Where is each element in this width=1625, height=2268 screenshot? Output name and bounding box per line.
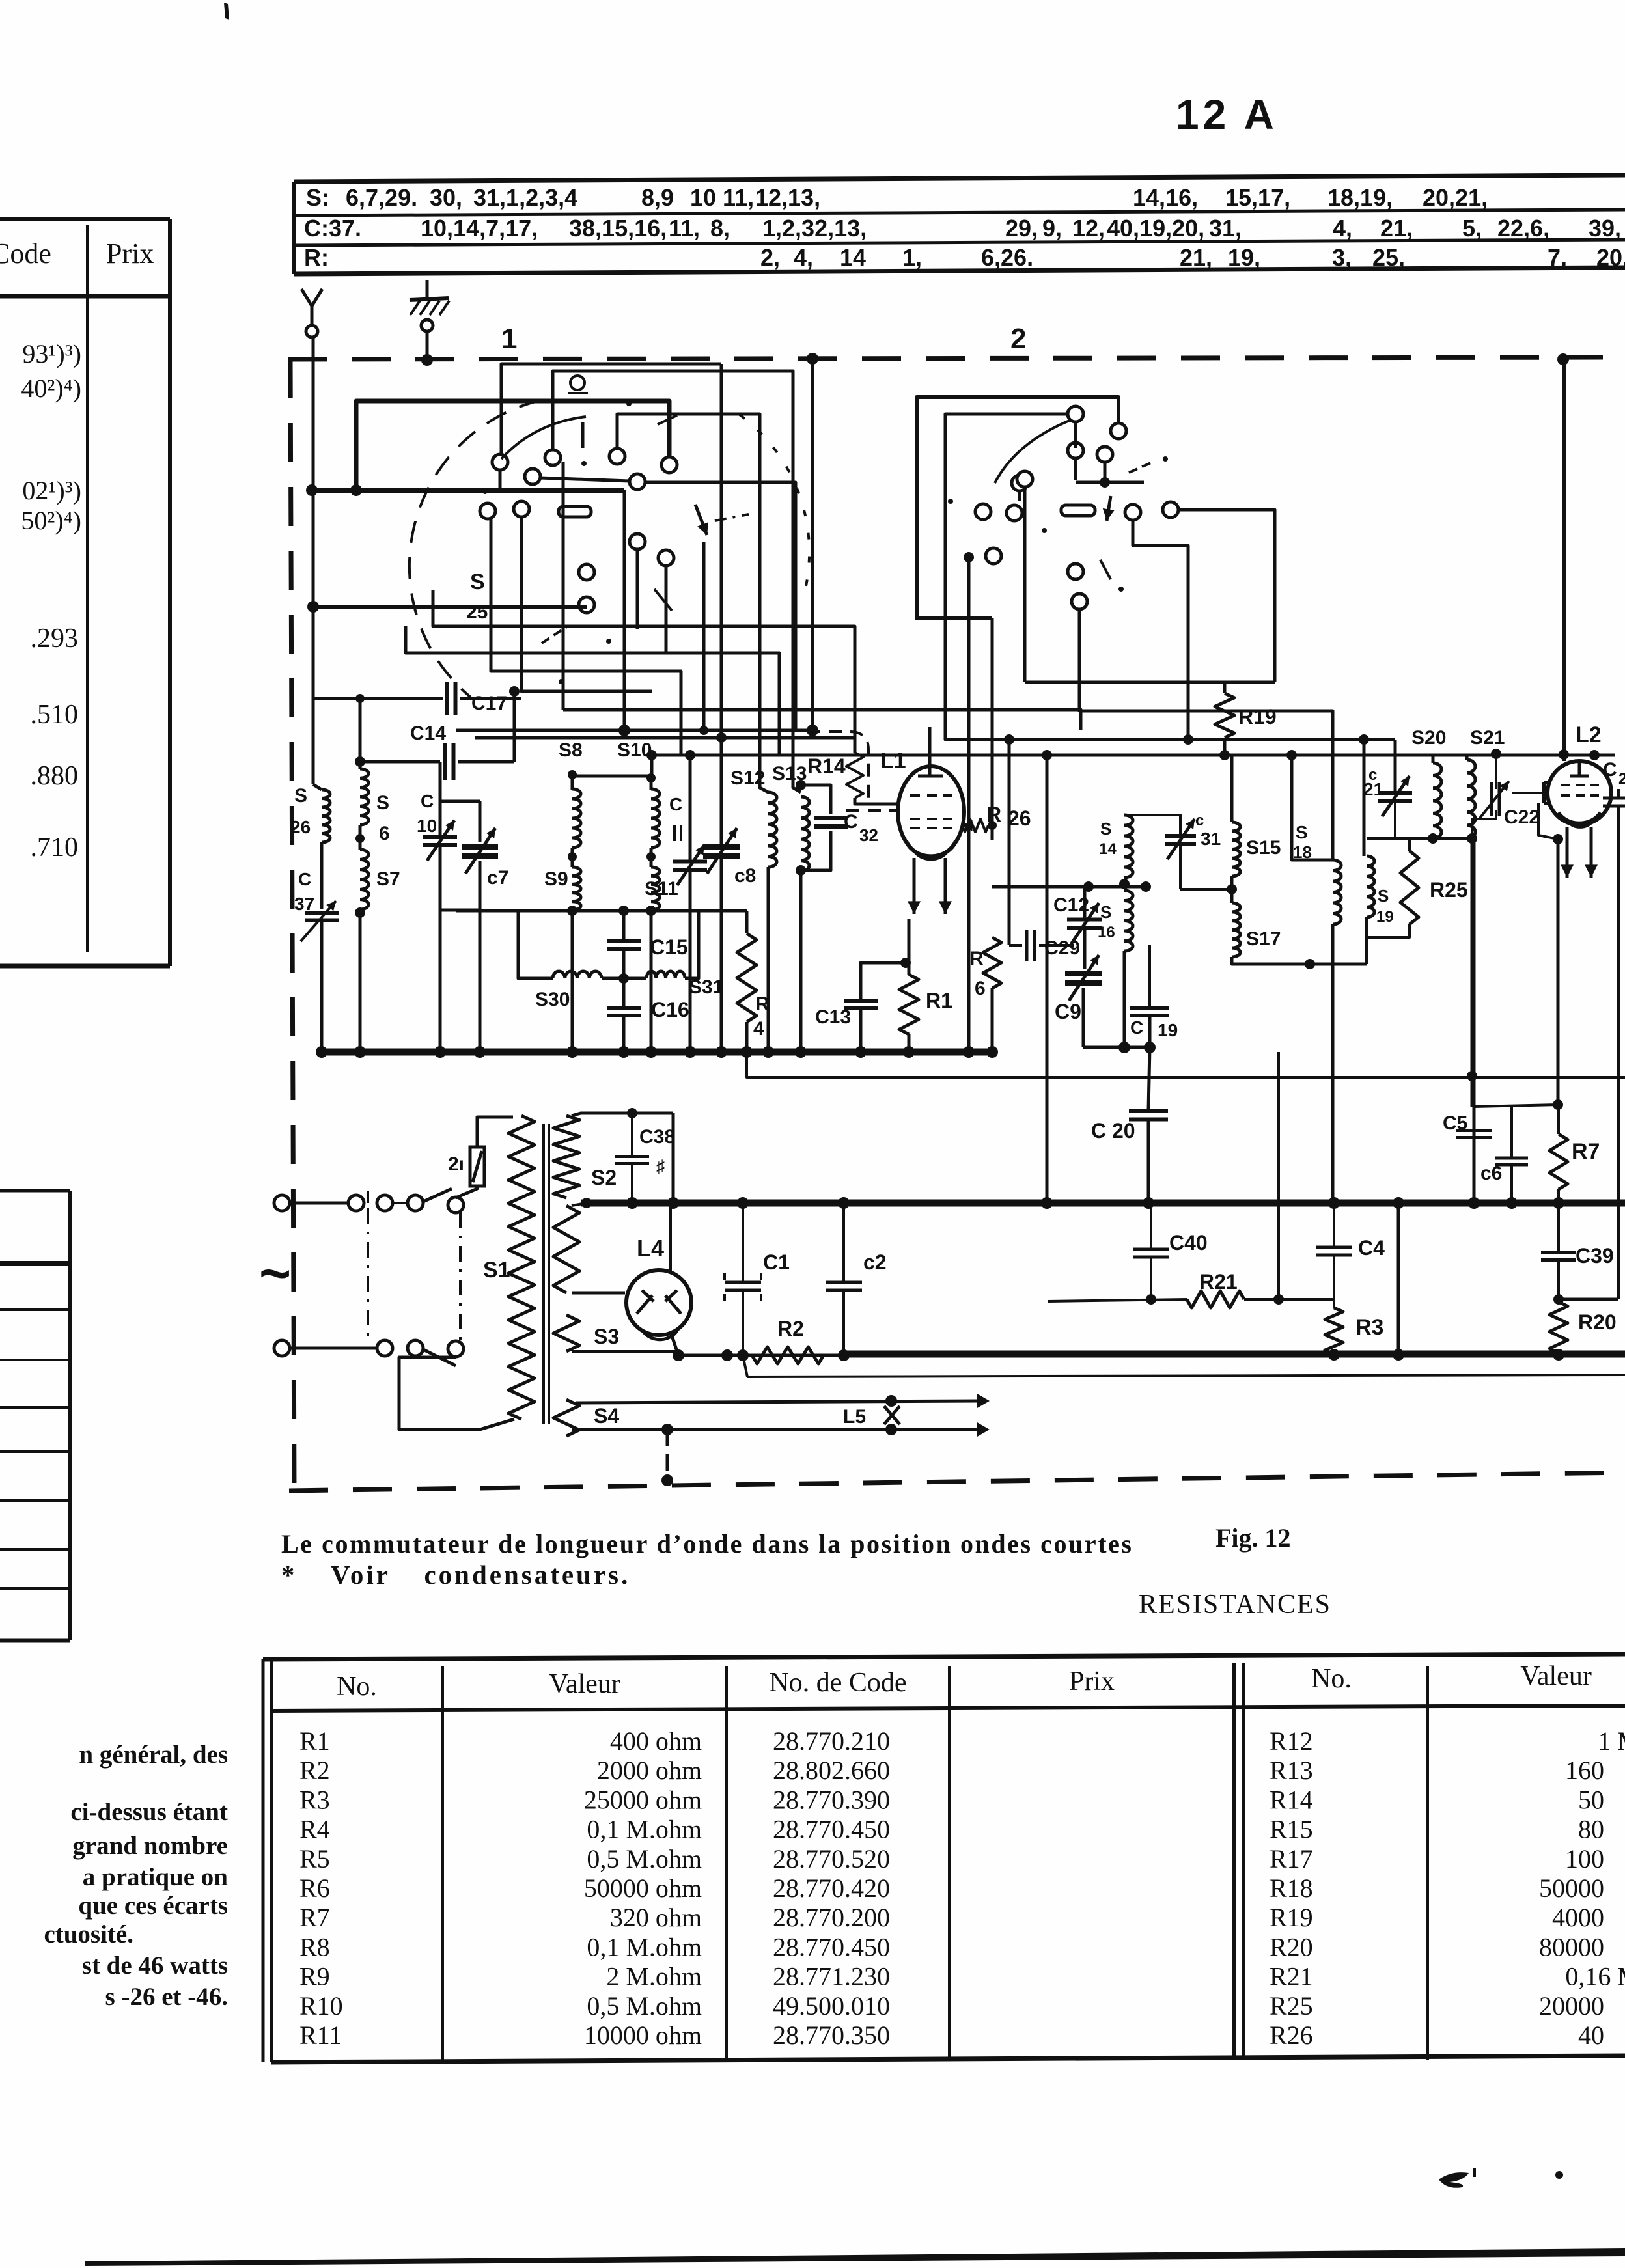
svg-text:C 20: C 20 [1091,1119,1135,1142]
cap C37 [305,911,339,915]
svg-text:Valeur: Valeur [1520,1661,1592,1691]
svg-text:n général, des: n général, des [79,1741,228,1769]
primary bottom lead [399,1357,514,1430]
S4 drop to border [666,1430,669,1478]
cap C14 [443,743,447,780]
coil S20 [1433,763,1441,838]
supply bus y2084 thin part [678,1354,846,1357]
switch 2 outline a [917,397,1118,618]
svg-text:26: 26 [1008,807,1031,830]
vert x2264 [1473,838,1476,1203]
svg-text:R3: R3 [299,1785,330,1814]
left lower table frame [68,1191,72,1640]
resistor R6 [983,937,1001,988]
svg-text:R21: R21 [1199,1270,1238,1293]
svg-text:C: C [298,869,311,889]
wire riser P4 [617,414,768,792]
coil S11 [651,867,660,910]
svg-text:15,17,: 15,17, [1225,184,1290,211]
svg-text:22,6,: 22,6, [1497,215,1549,242]
svg-text:9,: 9, [1042,215,1062,242]
coil S12 [768,792,777,867]
L4 bottom lead [671,1332,678,1355]
svg-text:No. de Code: No. de Code [769,1668,906,1698]
svg-text:C: C [421,791,434,811]
svg-text:Code: Code [0,238,51,270]
svg-text:No.: No. [1311,1664,1352,1694]
svg-text:4: 4 [753,1018,764,1040]
coil S26 [322,790,330,842]
svg-text:31: 31 [1201,829,1221,849]
svg-text:02¹)³): 02¹)³) [22,476,81,505]
svg-text:28.770.520: 28.770.520 [773,1844,890,1874]
svg-text:S4: S4 [594,1404,619,1428]
switch 2 marks [1129,462,1152,473]
mains terminals bottom [274,1340,290,1356]
svg-text:S10: S10 [617,740,652,761]
svg-text:2ı: 2ı [448,1154,464,1175]
svg-text:4,: 4, [794,244,813,271]
svg-text:S: S [1100,902,1111,922]
svg-text:C22: C22 [1504,807,1540,828]
svg-text:C: C [1603,759,1617,781]
svg-text:S: S [294,785,307,807]
svg-text:S11: S11 [645,878,678,900]
svg-text:400 ohm: 400 ohm [610,1726,702,1756]
scan edge bottom [85,2248,1625,2266]
svg-text:.510: .510 [31,700,79,730]
svg-text:28.802.660: 28.802.660 [773,1756,890,1785]
filter coil S30 [553,971,602,978]
svg-text:R: R [755,993,770,1015]
svg-text:R25: R25 [1270,1991,1313,2021]
svg-text:19,: 19, [1228,244,1260,271]
junction dot on border right [1557,353,1569,365]
svg-text:28.770.210: 28.770.210 [773,1726,890,1756]
wire drop c11 [636,549,639,629]
coil S8 [572,789,581,848]
cap C29 [1025,930,1029,961]
filter wiring [622,911,626,941]
ground symbol [426,280,429,300]
antenna bus [312,488,624,493]
svg-text:L5: L5 [843,1406,866,1428]
svg-text:C:37.: C:37. [304,215,361,242]
svg-text:S20: S20 [1411,727,1446,749]
svg-text:S30: S30 [535,989,570,1010]
svg-text:7,: 7, [1548,244,1567,271]
switch 2 wire to x1825 [1133,520,1188,740]
mains link dash [367,1208,369,1342]
coil S13 [801,797,809,871]
dashed chassis border left [290,359,294,1491]
svg-text:2 M.ohm: 2 M.ohm [606,1962,702,1991]
vert to C20 [1148,1047,1150,1111]
ink speck top [224,3,229,20]
secondary S2 [553,1116,579,1198]
svg-text:20000: 20000 [1539,1991,1604,2021]
svg-text:C: C [1130,1017,1143,1038]
svg-text:C4: C4 [1358,1236,1385,1260]
cap C5 [1456,1129,1492,1132]
svg-text:que ces écarts: que ces écarts [78,1892,228,1920]
svg-text:C16: C16 [651,998,689,1021]
wire S8-S10 top [575,775,652,778]
ohm mark [570,376,585,390]
svg-text:R3: R3 [1355,1315,1383,1340]
wire riser P2 [553,371,801,792]
svg-text:50²)⁴): 50²)⁴) [21,506,81,535]
resistor R26 [962,819,988,832]
resistor R3 [1325,1308,1343,1354]
cap C32 loop [801,785,831,814]
vert C38 right [672,1113,675,1203]
coil S7 [360,850,368,909]
svg-text:* Voir condensateurs.: * Voir condensateurs. [281,1560,630,1590]
svg-text:31,1,2,3,4: 31,1,2,3,4 [473,184,577,211]
svg-text:28.770.450: 28.770.450 [773,1932,890,1961]
thin line right [747,1052,1625,1077]
svg-text:R2: R2 [299,1756,330,1785]
svg-text:2: 2 [1618,770,1625,788]
svg-text:R20: R20 [1578,1310,1617,1334]
svg-text:L2: L2 [1576,723,1602,747]
svg-text:R6: R6 [299,1874,330,1903]
vert x1964 [1277,1052,1280,1299]
svg-text:28.771.230: 28.771.230 [773,1962,890,1991]
vert S21 col [1471,838,1474,1107]
wire h1609 [1083,1046,1150,1049]
svg-text:R19: R19 [1238,705,1277,728]
cap C4 [1316,1246,1352,1249]
cap C40 [1133,1248,1169,1251]
S4 lead [572,1428,891,1431]
switch 1 blade arc [501,417,586,459]
svg-text:R12: R12 [1270,1726,1313,1756]
switch 1 arrow [695,505,707,535]
cap C20 [1129,1109,1168,1113]
svg-text:R26: R26 [1270,2021,1313,2050]
coil S21 [1467,760,1475,838]
svg-text:4000: 4000 [1552,1903,1604,1932]
wire stair 8 [562,462,565,710]
svg-text:6,26.: 6,26. [981,244,1033,271]
svg-text:S: S [470,570,485,594]
svg-text:R14: R14 [1270,1785,1313,1814]
coil S18 [1333,860,1341,924]
svg-text:R19: R19 [1270,1903,1313,1932]
svg-text:S21: S21 [1470,727,1505,749]
secondary middle [553,1206,579,1293]
cap C7 dark [462,844,498,850]
svg-text:0,1 M.ohm: 0,1 M.ohm [587,1815,702,1844]
cap C22 variable [1490,782,1493,816]
svg-text:S9: S9 [544,868,568,890]
svg-text:C15: C15 [650,935,688,959]
svg-text:14: 14 [1099,840,1117,858]
svg-text:11,: 11, [669,215,700,242]
svg-text:49.500.010: 49.500.010 [773,1991,890,2021]
resistor R2 [752,1347,824,1364]
svg-text:2000 ohm: 2000 ohm [597,1756,702,1785]
coil S14 [1124,815,1133,878]
svg-text:12,13,: 12,13, [755,184,820,211]
svg-text:6,7,29.: 6,7,29. [346,184,417,211]
svg-text:R1: R1 [926,989,952,1012]
filter cap C16 [607,1006,641,1010]
wire S6 top [359,760,362,769]
svg-text:8,9: 8,9 [641,184,674,211]
svg-text:50000 ohm: 50000 ohm [584,1874,702,1903]
svg-text:21: 21 [1363,779,1383,799]
resistor R25 [1400,851,1419,924]
svg-text:R1: R1 [299,1726,330,1756]
resistor R21 [1187,1291,1244,1308]
switch 2 y741 wire [1074,458,1077,480]
svg-text:160: 160 [1565,1756,1604,1785]
svg-text:29,: 29, [1005,215,1038,242]
svg-text:1 M.: 1 M. [1598,1726,1625,1756]
svg-text:4,: 4, [1333,215,1352,242]
cap C39 [1541,1251,1576,1254]
svg-text:12 A: 12 A [1176,91,1278,138]
svg-text:.293: .293 [31,624,79,654]
coil S19 [1367,856,1374,917]
C10-C7 link [440,800,480,803]
switch 2 stair to S18 [1079,609,1333,860]
long pair wire 2 [475,736,855,740]
svg-text:26: 26 [290,817,311,837]
svg-text:R4: R4 [299,1815,330,1844]
svg-text:R: R [969,948,984,969]
ink blob bottom right [1439,2172,1469,2188]
svg-text:80000: 80000 [1539,1932,1604,1961]
svg-text:R20: R20 [1270,1932,1313,1961]
svg-text:.880: .880 [31,761,79,791]
supply bus y1848 [581,1200,1625,1207]
svg-text:c: c [1195,812,1204,829]
L4 top lead [669,1203,672,1273]
rectifier winding lead [572,1292,625,1295]
wire right edge [1558,1298,1618,1301]
svg-text:40: 40 [1578,2021,1604,2050]
wire drop d [665,566,668,652]
wire y1697 [1474,1105,1558,1107]
svg-text:20,: 20, [1596,244,1625,271]
svg-text:5,: 5, [1462,215,1482,242]
svg-text:14: 14 [840,244,866,271]
svg-text:c7: c7 [487,867,508,889]
svg-text:28.770.420: 28.770.420 [773,1874,890,1903]
svg-text:10 11,: 10 11, [690,184,754,211]
svg-text:10: 10 [417,816,437,836]
wire bus A [356,401,669,490]
cap C10 variable [423,835,457,839]
coil S10 [651,789,660,848]
cap C1 [725,1281,761,1284]
svg-text:R9: R9 [299,1962,330,1991]
secondary S3 [553,1315,579,1351]
resistor R7 [1549,1134,1568,1189]
svg-text:0,5 M.ohm: 0,5 M.ohm [587,1844,702,1874]
switch 2 wire to R19 [1178,510,1275,682]
svg-text:10,14,7,17,: 10,14,7,17, [421,215,538,242]
filter cap C15 [607,939,641,943]
svg-text:8,: 8, [710,215,730,242]
svg-text:R17: R17 [1270,1844,1313,1874]
svg-text:R10: R10 [299,1991,343,2021]
svg-text:R21: R21 [1270,1962,1313,1991]
switch 2 outline b [945,414,1395,740]
cap C9 dark [1065,971,1102,976]
dashed chassis border top [288,357,1625,359]
svg-text:40,19,20,: 40,19,20, [1107,215,1204,242]
svg-text:10000 ohm: 10000 ohm [584,2021,702,2050]
svg-text:93¹)³): 93¹)³) [22,339,81,368]
mains terminals top [274,1195,290,1211]
svg-text:R11: R11 [299,2021,342,2050]
svg-text:.710: .710 [31,833,79,863]
svg-text:st de 46 watts: st de 46 watts [82,1952,228,1980]
switch 1 pad [559,506,591,517]
svg-text:31,: 31, [1209,215,1242,242]
svg-text:R13: R13 [1270,1756,1313,1785]
long pair wire 1 [456,729,812,732]
svg-text:L4: L4 [637,1235,664,1262]
switch 2 contacts [1068,443,1083,458]
vert x1608 [1046,755,1049,1203]
svg-text:80: 80 [1578,1815,1604,1844]
svg-text:ci-dessus étant: ci-dessus étant [70,1798,228,1826]
wire stair 6 [491,519,681,755]
svg-text:R2: R2 [777,1317,804,1340]
antenna symbol [311,306,314,325]
coil S15 [1232,822,1240,876]
svg-text:21,: 21, [1180,244,1212,271]
tube L4 [626,1270,691,1335]
wire y1288 [1367,837,1472,840]
svg-text:20,21,: 20,21, [1423,184,1488,211]
cap C12 variable [1067,918,1102,922]
svg-text:C17: C17 [471,693,507,714]
svg-text:a pratique on: a pratique on [83,1863,229,1891]
cap C38 [615,1155,649,1158]
svg-text:S: S [376,792,389,814]
svg-text:25: 25 [466,602,488,623]
wire contact link [540,478,630,481]
resistor R20 [1549,1302,1568,1353]
wire stair 7 [521,517,652,691]
switch 2 blade arc [995,420,1071,483]
tube L2 arrows [1566,827,1569,878]
svg-text:28.770.450: 28.770.450 [773,1815,890,1844]
svg-text:40²)⁴): 40²)⁴) [21,374,81,403]
svg-text:30,: 30, [430,184,462,211]
cap C6 [1495,1157,1528,1160]
svg-text:S:: S: [306,184,329,211]
svg-text:ctuosité.: ctuosité. [44,1920,133,1948]
svg-text:C39: C39 [1576,1244,1614,1267]
cap C23 [1603,797,1625,800]
svg-text:0,16 M.: 0,16 M. [1565,1962,1625,1991]
svg-text:grand nombre: grand nombre [72,1832,228,1860]
resistor table frame [263,1654,1625,1659]
top table frame [294,175,1625,182]
svg-text:16: 16 [1098,924,1115,941]
svg-text:S2: S2 [591,1166,617,1189]
coil S16 [1124,891,1133,951]
svg-text:25000 ohm: 25000 ohm [584,1785,702,1814]
svg-text:S15: S15 [1246,837,1281,859]
svg-text:S: S [1296,822,1308,842]
filter coil S31 [646,971,685,978]
svg-text:12,: 12, [1072,215,1105,242]
svg-text:L1: L1 [880,749,906,773]
svg-text:19: 19 [1158,1020,1178,1040]
cap C21 variable [1378,791,1412,795]
switch 1 small marks [658,415,677,424]
tube L1 arrows [913,858,916,914]
svg-text:C40: C40 [1169,1231,1208,1254]
wire S17 bottom [1232,957,1367,964]
svg-text:R5: R5 [299,1844,330,1874]
tube L2 grid bracket [1542,782,1546,803]
svg-text:6: 6 [379,823,390,844]
svg-text:R18: R18 [1270,1874,1313,1903]
svg-text:2: 2 [1010,323,1026,355]
resistor R19 [1215,693,1234,738]
resistor R4 [737,933,757,1022]
secondary S4 [553,1400,579,1436]
svg-text:C29: C29 [1044,937,1080,959]
wire L2 cathode [1538,803,1558,839]
switch 2 arrow [1107,496,1111,521]
switch 2 drop to C29 [1008,740,1011,945]
svg-text:28.770.390: 28.770.390 [773,1785,890,1814]
coil S6 [360,769,368,825]
svg-text:s -26 et -46.: s -26 et -46. [105,1983,228,2011]
svg-text:C: C [669,794,682,814]
main h wire [652,754,1615,757]
svg-text:Prix: Prix [1069,1666,1115,1696]
wire R14 to L1 grid [855,798,900,804]
vert x2148 [1397,1203,1400,1354]
vert from border to L2 [1562,359,1566,761]
cap C2 [826,1281,862,1284]
wire riser P1 [501,364,721,455]
svg-text:No.: No. [337,1672,377,1702]
svg-text:c2: c2 [863,1251,887,1274]
svg-text:R8: R8 [299,1932,330,1961]
svg-text:28.770.200: 28.770.200 [773,1903,890,1932]
svg-text:0,5 M.ohm: 0,5 M.ohm [587,1991,702,2021]
svg-text:320 ohm: 320 ohm [610,1903,702,1932]
svg-text:1: 1 [501,323,517,355]
rotary switch S5 dashed outline [410,400,540,697]
dashed chassis border bottom [289,1473,1625,1491]
cap C8 dark [703,844,740,850]
switch 1 contacts [492,454,508,470]
svg-text:R:: R: [304,244,329,271]
coil S17 [1232,903,1240,957]
wire stair 2 [644,482,796,730]
wire border drop [811,359,814,730]
fuse wiring [456,1186,477,1198]
cap C17 [445,682,449,715]
svg-text:R25: R25 [1430,878,1468,902]
fuse Z1 [470,1147,484,1186]
filter top wire [456,909,747,913]
